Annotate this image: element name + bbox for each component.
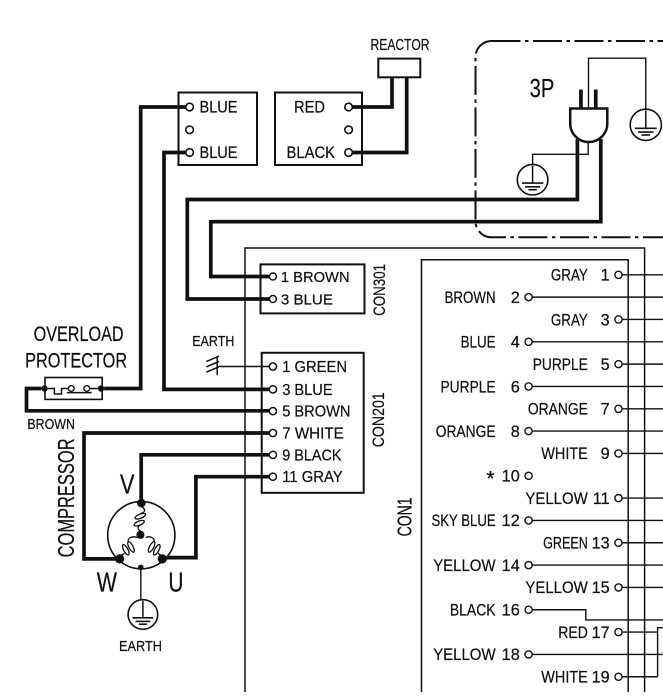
compressor M1 body circle [108,502,175,569]
svg-text:EARTH: EARTH [119,638,162,655]
terminal block TB1 (BLUE terminals) box [179,93,258,166]
svg-text:9: 9 [601,445,610,463]
wire stub pins 17/19 junction [658,628,663,677]
wire CON1 pin 13 [622,542,663,544]
CON1 pin 12 circle [525,517,532,524]
wire CON1 pin 5 [622,363,663,365]
svg-text:GRAY: GRAY [551,267,588,285]
svg-text:V: V [120,469,135,500]
svg-text:1 GREEN: 1 GREEN [282,359,347,376]
svg-text:*: * [486,467,494,490]
svg-text:YELLOW: YELLOW [433,557,496,575]
controller board outer box [245,248,645,694]
svg-text:18: 18 [502,646,520,664]
CON1 pin 1 circle [615,271,622,278]
svg-text:11: 11 [593,490,610,508]
svg-text:PROTECTOR: PROTECTOR [25,350,127,373]
CON1 pin 14 circle [525,561,532,568]
svg-text:GREEN: GREEN [543,535,588,553]
wire CON1 pin 12 [532,519,663,521]
CON1 pin 4 circle [525,338,532,345]
plug P1 prong left [579,90,583,110]
CON1 pin 16 circle [525,606,532,613]
wire CON1 pin 15 [622,586,663,588]
svg-text:GRAY: GRAY [551,311,588,329]
CON201 pin 5 circle [269,408,276,415]
svg-text:11 GRAY: 11 GRAY [282,469,343,486]
CON201 pin 7 circle [269,429,276,436]
svg-text:RED: RED [294,99,325,117]
svg-text:EARTH: EARTH [192,333,234,350]
wire CON1 pin 2 [532,296,663,298]
wire CON1 pin 19 [622,676,658,678]
CON1 pin 11 circle [615,495,622,502]
svg-text:BLUE: BLUE [200,99,238,117]
CON1 pin 13 circle [615,539,622,546]
wire plug to line N (thick right) [211,139,601,277]
wire plug to line L (thick left) [187,139,577,299]
svg-text:W: W [97,567,118,598]
svg-text:WHITE: WHITE [541,445,588,463]
svg-text:BLACK: BLACK [450,602,496,620]
svg-text:5 BROWN: 5 BROWN [282,404,350,421]
connector CON201 box [262,353,364,493]
svg-text:19: 19 [592,669,610,687]
svg-text:14: 14 [502,557,520,575]
earth symbol E2 (left below plug) [517,164,548,195]
wire BLUE-bottom to CON201 pin3 [164,153,269,390]
CON1 pin 19 circle [615,673,622,680]
wire earth to CON201 pin1 [219,366,270,368]
svg-text:9 BLACK: 9 BLACK [282,447,342,464]
svg-text:ORANGE: ORANGE [528,401,588,419]
svg-text:BROWN: BROWN [445,289,496,307]
svg-text:1: 1 [601,267,610,285]
terminal block TB2 (RED/BLACK) box [275,93,362,166]
wire CON1 pin 11 [622,497,663,499]
svg-text:12: 12 [502,512,520,530]
earth symbol E4 (compressor) [128,600,158,630]
wire CON1 pin 7 [622,408,663,410]
svg-text:6: 6 [511,378,520,396]
wire plug top to right earth [589,58,646,109]
compressor winding center-W [128,537,137,543]
svg-text:7 WHITE: 7 WHITE [282,426,344,443]
svg-text:BLACK: BLACK [287,144,336,162]
CON301 pin 1 circle [269,273,276,280]
wire CON1 pin 8 [532,430,663,432]
svg-text:CON201: CON201 [369,392,388,447]
wire CON1 pin 3 [622,318,663,320]
svg-text:BLUE: BLUE [461,334,496,352]
CON201 pin 11 circle [269,473,276,480]
connector CON1 pin box [422,260,629,694]
node compressor earth dot [138,565,144,571]
svg-text:YELLOW: YELLOW [433,646,496,664]
wire reactor-right to BLACK terminal [352,78,406,153]
CON1 pin 6 circle [525,383,532,390]
svg-text:WHITE: WHITE [541,669,588,687]
svg-text:REACTOR: REACTOR [371,37,430,54]
connector CON301 box [261,264,365,313]
plug P1 body [570,109,607,143]
svg-text:16: 16 [502,602,520,620]
node center dot [136,531,144,539]
wire CON201 pin11 to U [167,477,270,558]
CON1 pin 15 circle [615,584,622,591]
node V terminal dot [137,499,146,508]
TB1 pin circle BLUE top [186,103,194,111]
reactor L1 box [378,59,420,78]
OL1 bimetal contact symbol [48,389,69,395]
svg-text:OVERLOAD: OVERLOAD [34,323,124,346]
CON1 pin 17 circle [615,628,622,635]
svg-text:COMPRESSOR: COMPRESSOR [53,438,79,557]
CON1 pin 18 circle [525,651,532,658]
wire CON1 pin 4 [532,341,663,343]
svg-text:4: 4 [511,334,520,352]
TB2 pin circle BLACK [345,149,353,157]
wire CON1 pin 16 [532,610,663,620]
wire CON1 pin 1 [622,274,663,276]
wire CON201 pin9 to V [141,455,269,499]
CON1 pin 10 circle [525,472,532,479]
node W terminal dot [115,554,124,563]
wire plug bottom to left earth [533,142,589,165]
TB2 pin circle middle [345,126,353,134]
CON201 pin 1 circle [269,363,276,370]
svg-text:3 BLUE: 3 BLUE [281,291,333,308]
svg-text:10: 10 [502,468,520,486]
wire OL1 to CON201 pin5 (BROWN) [27,389,270,411]
svg-text:3P: 3P [530,73,555,103]
svg-text:13: 13 [592,535,610,553]
svg-text:ORANGE: ORANGE [436,423,496,441]
earth symbol E3 (hatched ground) [216,356,218,375]
svg-text:5: 5 [601,356,610,374]
OL1 terminal dot right [98,385,104,391]
wire CON1 pin 14 [532,564,663,566]
svg-text:CON301: CON301 [370,264,389,316]
CON1 pin 7 circle [615,405,622,412]
power plug enclosure 3P (dash-dot boundary) [476,41,663,237]
svg-text:7: 7 [601,401,610,419]
overload protector OL1 box [45,378,102,400]
wire reactor-left to RED terminal [352,78,392,108]
CON201 pin 3 circle [269,386,276,393]
CON1 pin 3 circle [615,316,622,323]
svg-text:BLUE: BLUE [200,144,238,162]
svg-text:17: 17 [592,624,610,642]
CON1 pin 5 circle [615,361,622,368]
svg-text:3 BLUE: 3 BLUE [282,382,332,399]
svg-text:PURPLE: PURPLE [533,356,588,374]
compressor winding center-U [146,537,155,543]
wire CON1 pin 9 [622,452,663,454]
svg-text:PURPLE: PURPLE [441,378,496,396]
wire CON1 pin 18 [532,653,663,655]
CON1 pin 2 circle [525,294,532,301]
wire BLUE-top to overload protector [104,107,186,389]
TB1 pin circle middle [186,126,194,134]
svg-text:YELLOW: YELLOW [525,490,588,508]
svg-text:CON1: CON1 [395,497,417,536]
OL1 terminal dot left [41,385,47,391]
svg-text:1 BROWN: 1 BROWN [281,269,350,286]
wire CON201 pin7 to W [84,433,269,559]
svg-text:15: 15 [592,579,610,597]
wire compressor to earth [140,568,142,600]
CON201 pin 9 circle [269,451,276,458]
svg-text:8: 8 [511,423,520,441]
svg-text:2: 2 [511,289,520,307]
earth symbol E1 (right of plug) [630,109,661,140]
svg-text:U: U [168,567,183,598]
node U terminal dot [158,554,167,563]
CON301 pin 3 circle [269,296,276,303]
svg-text:YELLOW: YELLOW [525,579,588,597]
wire CON1 pin 17 [622,631,658,633]
wire CON1 pin 6 [532,385,663,387]
svg-text:SKY BLUE: SKY BLUE [432,512,496,530]
TB2 pin circle RED [345,103,353,111]
svg-text:BROWN: BROWN [27,416,75,433]
svg-text:3: 3 [601,311,610,329]
plug P1 prong right [594,90,598,110]
compressor winding V-center [141,507,145,514]
CON1 pin 9 circle [615,450,622,457]
CON1 pin 8 circle [525,428,532,435]
svg-text:RED: RED [558,624,588,642]
TB1 pin circle BLUE bottom [186,149,194,157]
